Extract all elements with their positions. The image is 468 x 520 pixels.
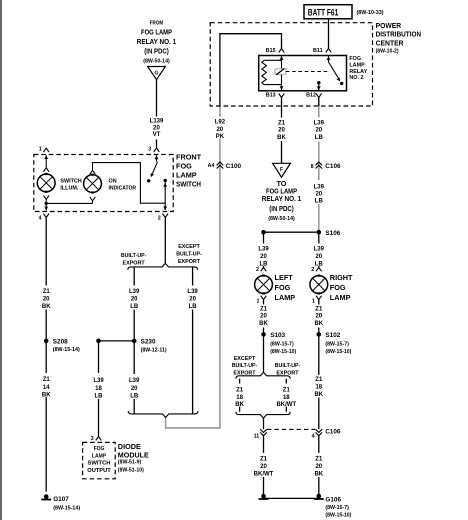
svg-text:BK/WT: BK/WT xyxy=(254,471,274,477)
svg-text:LAMP: LAMP xyxy=(275,293,296,302)
svg-text:SWITCH: SWITCH xyxy=(60,178,81,184)
splice S102 xyxy=(317,332,322,337)
svg-text:(8W-51-10): (8W-51-10) xyxy=(118,467,144,473)
svg-text:RELAY: RELAY xyxy=(349,69,367,75)
svg-text:20: 20 xyxy=(131,386,138,392)
switch blade xyxy=(152,162,158,175)
wire right fog lamp column xyxy=(318,232,320,267)
wire BATT F61 to relay B11 xyxy=(328,19,330,49)
svg-text:(IN PDC): (IN PDC) xyxy=(144,47,169,56)
lamp on indicator xyxy=(90,170,96,174)
svg-text:VT: VT xyxy=(153,132,161,138)
svg-text:A4: A4 xyxy=(208,163,215,169)
wire S102 to C106 pin 4 xyxy=(318,334,320,429)
svg-text:20: 20 xyxy=(315,128,322,134)
svg-text:BK: BK xyxy=(314,321,323,327)
ground G106 right xyxy=(314,494,324,500)
connector C106 pin 4 xyxy=(316,429,323,436)
svg-text:SWITCH: SWITCH xyxy=(88,461,111,467)
svg-text:MODULE: MODULE xyxy=(118,450,149,459)
svg-text:Z1: Z1 xyxy=(260,457,268,463)
svg-text:FOG: FOG xyxy=(94,446,105,452)
option brace under S103 xyxy=(236,372,290,378)
svg-text:C106: C106 xyxy=(325,163,341,170)
svg-text:LAMP: LAMP xyxy=(349,63,365,69)
lamp switch illumination xyxy=(43,168,49,172)
switch pin 2 fork xyxy=(163,214,169,218)
svg-text:L39: L39 xyxy=(187,289,198,295)
svg-text:3: 3 xyxy=(148,147,151,153)
right fog lamp pin 2 fork xyxy=(316,267,322,271)
svg-text:Z1: Z1 xyxy=(315,377,323,383)
svg-text:11: 11 xyxy=(254,433,260,439)
svg-text:EXPORT: EXPORT xyxy=(123,261,146,267)
svg-text:BK: BK xyxy=(42,304,51,310)
connector F triangle xyxy=(273,163,291,177)
svg-text:BK: BK xyxy=(277,135,286,141)
svg-text:RELAY NO. 1: RELAY NO. 1 xyxy=(137,37,177,46)
switch pin 2 internal line xyxy=(164,182,166,210)
svg-text:14: 14 xyxy=(43,385,50,391)
svg-text:FRONT: FRONT xyxy=(176,153,202,162)
svg-text:OUTPUT: OUTPUT xyxy=(87,468,111,474)
svg-text:(8W-50-14): (8W-50-14) xyxy=(143,59,170,65)
svg-text:BK/WT: BK/WT xyxy=(276,402,296,408)
wire C106 pin 11 to ground G106 xyxy=(263,436,265,495)
svg-text:(8W-50-14): (8W-50-14) xyxy=(268,216,295,222)
svg-text:L92: L92 xyxy=(215,120,226,126)
svg-text:(8W-15-14): (8W-15-14) xyxy=(53,505,80,511)
svg-text:18: 18 xyxy=(283,395,290,401)
splice S103 xyxy=(261,332,266,337)
switch pin 1 xyxy=(43,148,49,152)
front fog lamp switch dashed box xyxy=(34,155,173,212)
pin B13 fork xyxy=(279,94,285,98)
svg-text:(8W-15-14): (8W-15-14) xyxy=(53,347,80,353)
svg-text:2: 2 xyxy=(158,215,161,221)
wire relay B13 to triangle F xyxy=(281,97,283,163)
relay coil symbol xyxy=(275,69,286,74)
connector C106 dashed line xyxy=(267,428,315,430)
in-line connector A4 C100 xyxy=(217,162,224,169)
svg-text:B11: B11 xyxy=(313,48,323,54)
battery feed box BATT F61 xyxy=(304,5,352,19)
svg-text:C106: C106 xyxy=(325,429,341,436)
splice S106 xyxy=(317,230,322,235)
svg-text:L39: L39 xyxy=(314,184,325,190)
splice S208 xyxy=(44,339,49,344)
svg-text:S102: S102 xyxy=(325,332,340,339)
svg-text:1: 1 xyxy=(257,299,260,305)
svg-text:18: 18 xyxy=(236,395,243,401)
svg-text:L39: L39 xyxy=(314,247,325,253)
wire left fog lamp column xyxy=(263,232,265,267)
svg-text:(8W-15-10): (8W-15-10) xyxy=(325,349,351,355)
svg-text:FOG: FOG xyxy=(176,162,192,171)
wire built-up-export L39 to S230 xyxy=(133,267,135,341)
svg-text:BK: BK xyxy=(42,393,51,399)
diode module dashed box xyxy=(83,442,116,478)
svg-text:FOG: FOG xyxy=(330,283,346,292)
svg-text:G106: G106 xyxy=(325,496,341,503)
wire brace to C106 pin 11 xyxy=(263,418,265,429)
svg-text:BUILT-UP-: BUILT-UP- xyxy=(121,253,147,259)
svg-text:BATT F61: BATT F61 xyxy=(308,8,339,18)
svg-text:(8W-15-10): (8W-15-10) xyxy=(325,513,351,519)
svg-text:RELAY NO. 1: RELAY NO. 1 xyxy=(262,194,302,203)
svg-text:L39: L39 xyxy=(314,120,325,126)
svg-text:20: 20 xyxy=(315,254,322,260)
wire G triangle to switch pin 3 xyxy=(156,80,158,148)
wire except built-up-export L39 xyxy=(192,267,194,414)
wire S230 down to merge brace xyxy=(133,341,135,414)
switch pin 4 fork xyxy=(43,214,49,218)
svg-text:LAMP: LAMP xyxy=(176,171,197,180)
svg-text:4: 4 xyxy=(39,215,42,221)
svg-text:(8W-51-9): (8W-51-9) xyxy=(118,460,142,466)
relay contact to B12 xyxy=(317,81,320,84)
option brace under switch pin 2 xyxy=(128,263,198,269)
svg-text:(IN PDC): (IN PDC) xyxy=(269,204,294,213)
svg-text:LB: LB xyxy=(260,261,269,267)
wire relay B12 stub xyxy=(318,97,320,106)
ground G106 left xyxy=(259,494,269,500)
svg-text:FOG: FOG xyxy=(349,56,361,62)
svg-text:B15: B15 xyxy=(266,48,276,54)
wire L92 gray from PDC to splice brace xyxy=(166,106,220,428)
svg-text:POWER: POWER xyxy=(376,21,402,30)
wire S230 to diode module pin 3 xyxy=(98,341,100,437)
svg-text:FROM: FROM xyxy=(150,20,164,26)
relay linkage dashed xyxy=(286,71,328,73)
resistor in relay xyxy=(262,60,266,84)
svg-text:BUILT-UP-: BUILT-UP- xyxy=(275,363,301,369)
svg-text:S230: S230 xyxy=(141,338,156,345)
svg-text:LAMP: LAMP xyxy=(330,293,351,302)
svg-text:S106: S106 xyxy=(325,230,340,237)
relay coil line xyxy=(281,56,283,90)
svg-text:EXPORT: EXPORT xyxy=(178,259,201,265)
svg-text:G107: G107 xyxy=(53,496,69,503)
svg-text:NO. 2: NO. 2 xyxy=(349,75,363,81)
svg-text:(8W-15-10): (8W-15-10) xyxy=(270,349,296,355)
WHITE-GAPS xyxy=(37,117,328,478)
left fog lamp xyxy=(255,275,273,295)
svg-text:LB: LB xyxy=(315,135,324,141)
svg-text:BK: BK xyxy=(314,471,323,477)
wire switch pin 4 to G107 xyxy=(45,218,47,492)
wire except built-up-export Z1 18 BK xyxy=(239,379,241,412)
svg-text:LB: LB xyxy=(95,394,104,400)
svg-text:ILLUM.: ILLUM. xyxy=(60,186,78,192)
svg-text:2: 2 xyxy=(311,267,314,273)
svg-text:1: 1 xyxy=(39,147,42,153)
svg-text:L39: L39 xyxy=(129,289,140,295)
right fog lamp xyxy=(310,275,328,295)
svg-text:20: 20 xyxy=(43,297,50,303)
wire S106 horizontal xyxy=(264,231,319,233)
svg-text:20: 20 xyxy=(153,125,160,131)
svg-text:C100: C100 xyxy=(226,163,242,170)
svg-text:F: F xyxy=(280,167,283,173)
svg-text:20: 20 xyxy=(315,192,322,198)
svg-text:L39: L39 xyxy=(258,247,269,253)
svg-text:Z1: Z1 xyxy=(278,120,286,126)
merge brace to L92 xyxy=(128,411,198,417)
svg-text:Z1: Z1 xyxy=(283,387,291,393)
connector G triangle xyxy=(148,67,166,80)
relay switch blade B11 xyxy=(328,56,330,63)
svg-text:S103: S103 xyxy=(270,332,285,339)
wire S230 horizontal xyxy=(99,340,135,342)
relay box U relay no.2 xyxy=(259,56,347,91)
svg-text:LB: LB xyxy=(130,304,139,310)
svg-text:BK: BK xyxy=(235,402,244,408)
wire switch pin 2 to option brace xyxy=(164,218,166,264)
svg-text:20: 20 xyxy=(315,464,322,470)
power distribution center dashed box xyxy=(210,23,372,106)
in-line connector 8 C106 xyxy=(316,162,323,169)
page left border strip xyxy=(0,0,2,520)
ground G107 xyxy=(41,494,51,500)
svg-text:20: 20 xyxy=(278,128,285,134)
svg-text:BK: BK xyxy=(259,321,268,327)
switch pin 3 fork xyxy=(154,148,160,152)
svg-text:ON: ON xyxy=(109,178,117,184)
svg-text:(8W-15-7): (8W-15-7) xyxy=(325,341,349,347)
svg-text:CENTER: CENTER xyxy=(376,38,405,47)
svg-text:(8W-12-11): (8W-12-11) xyxy=(141,348,167,354)
svg-text:SWITCH: SWITCH xyxy=(176,180,201,189)
connector C106 pin 11 xyxy=(260,429,267,436)
diode module pin 3 fork xyxy=(96,437,102,441)
svg-text:4: 4 xyxy=(312,433,315,439)
svg-text:L139: L139 xyxy=(150,119,164,125)
svg-text:1: 1 xyxy=(312,299,315,305)
svg-text:FOG: FOG xyxy=(275,283,291,292)
svg-text:LB: LB xyxy=(130,394,139,400)
svg-text:20: 20 xyxy=(217,127,224,133)
merge brace above C106 pin 11 xyxy=(236,412,290,418)
svg-text:2: 2 xyxy=(256,267,259,273)
svg-text:3: 3 xyxy=(91,436,94,442)
svg-text:B13: B13 xyxy=(266,93,276,99)
svg-text:Z1: Z1 xyxy=(43,289,51,295)
svg-text:(8W-15-7): (8W-15-7) xyxy=(325,505,349,511)
pin B12 fork xyxy=(316,94,322,98)
svg-text:20: 20 xyxy=(315,314,322,320)
svg-text:Z1: Z1 xyxy=(315,306,323,312)
svg-text:20: 20 xyxy=(260,314,267,320)
svg-text:Z1: Z1 xyxy=(260,306,268,312)
svg-text:LB: LB xyxy=(315,199,324,205)
svg-text:PK: PK xyxy=(216,134,225,140)
svg-text:(8W-10-33): (8W-10-33) xyxy=(357,10,384,16)
wire built-up-export Z1 18 BK/WT xyxy=(285,379,287,412)
left fog lamp pin 2 fork xyxy=(261,267,267,271)
svg-text:LB: LB xyxy=(189,304,198,310)
svg-text:EXCEPT: EXCEPT xyxy=(234,356,256,362)
svg-text:(8W-15-7): (8W-15-7) xyxy=(270,341,294,347)
svg-text:LAMP: LAMP xyxy=(92,453,107,459)
svg-text:Z1: Z1 xyxy=(43,377,51,383)
svg-text:LEFT: LEFT xyxy=(275,273,294,282)
svg-text:8: 8 xyxy=(311,164,314,170)
svg-text:20: 20 xyxy=(260,254,267,260)
svg-text:Z1: Z1 xyxy=(236,387,244,393)
wire L39 LB gray from PDC B12 to S106 xyxy=(318,104,320,232)
pin B11 fork xyxy=(326,49,332,53)
wire ground bus G106 xyxy=(264,497,319,499)
svg-text:BUILT-UP-: BUILT-UP- xyxy=(232,363,258,369)
svg-text:S208: S208 xyxy=(53,338,68,345)
svg-text:Z1: Z1 xyxy=(315,457,323,463)
svg-text:INDICATOR: INDICATOR xyxy=(109,186,137,192)
svg-text:(8W-10-2): (8W-10-2) xyxy=(376,48,399,54)
switch illum lower fork xyxy=(43,195,49,199)
left fog lamp pin 1 fork xyxy=(261,296,267,300)
svg-text:DISTRIBUTION: DISTRIBUTION xyxy=(376,30,422,39)
svg-text:20: 20 xyxy=(260,464,267,470)
svg-text:G: G xyxy=(155,71,159,77)
wire S103 to brace xyxy=(263,334,265,372)
wire PDC internal B15 feed xyxy=(220,34,282,106)
splice S230 xyxy=(96,339,101,344)
svg-text:B12: B12 xyxy=(306,93,316,99)
svg-text:L39: L39 xyxy=(129,378,140,384)
svg-text:20: 20 xyxy=(189,297,196,303)
svg-text:FOG LAMP: FOG LAMP xyxy=(141,28,172,37)
svg-text:RIGHT: RIGHT xyxy=(330,273,353,282)
on indicator feed elbow xyxy=(93,163,166,204)
wire C106 pin 4 to ground G106 xyxy=(318,436,320,495)
switch contact dots xyxy=(147,179,150,182)
svg-text:BUILT-UP-: BUILT-UP- xyxy=(176,252,202,258)
svg-text:BK: BK xyxy=(314,392,323,398)
junction dot pin4 bus xyxy=(45,202,48,205)
svg-text:LB: LB xyxy=(315,261,324,267)
pin B15 fork xyxy=(279,49,285,53)
on indicator lower fork xyxy=(90,197,96,201)
svg-text:18: 18 xyxy=(95,386,102,392)
svg-text:EXCEPT: EXCEPT xyxy=(178,244,200,250)
svg-text:20: 20 xyxy=(131,297,138,303)
svg-text:18: 18 xyxy=(315,384,322,390)
svg-text:L39: L39 xyxy=(93,378,104,384)
right fog lamp pin 1 fork xyxy=(316,296,322,300)
